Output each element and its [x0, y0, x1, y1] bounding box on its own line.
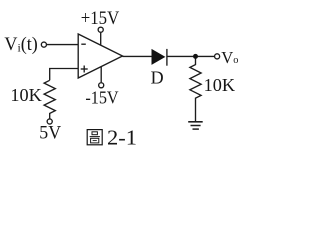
svg-text:D: D	[151, 67, 164, 87]
svg-text:-15V: -15V	[85, 88, 118, 108]
svg-text:10K: 10K	[10, 85, 41, 105]
svg-text:5V: 5V	[39, 123, 61, 144]
svg-text:Vi(t): Vi(t)	[4, 35, 37, 55]
svg-text:+15V: +15V	[81, 8, 120, 29]
svg-text:2-1: 2-1	[107, 125, 137, 149]
svg-text:10K: 10K	[204, 75, 235, 95]
svg-text:Vo: Vo	[221, 48, 238, 67]
